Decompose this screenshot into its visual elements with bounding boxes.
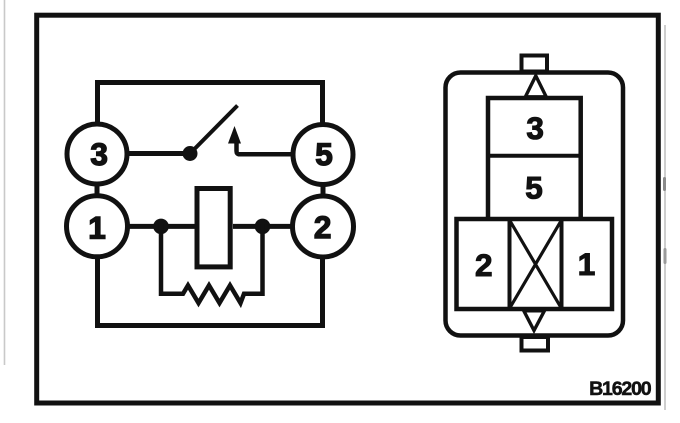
svg-text:3: 3 xyxy=(90,136,108,172)
svg-text:5: 5 xyxy=(525,169,543,205)
svg-text:B16200: B16200 xyxy=(589,378,652,400)
svg-text:3: 3 xyxy=(526,110,544,146)
svg-text:2: 2 xyxy=(475,247,493,283)
svg-text:2: 2 xyxy=(314,209,332,245)
svg-text:1: 1 xyxy=(88,210,106,246)
svg-text:5: 5 xyxy=(315,136,333,172)
svg-text:1: 1 xyxy=(578,246,596,282)
